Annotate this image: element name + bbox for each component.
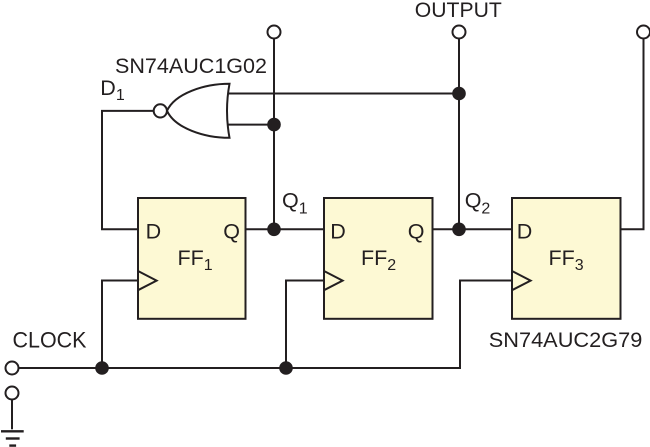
flip-flop FF1 box (138, 198, 246, 319)
svg-text:SN74AUC1G02: SN74AUC1G02 (115, 54, 267, 78)
junction dot (NOR top input on OUTPUT vertical) (452, 87, 466, 101)
terminal circle (clock source return, to ground) (6, 387, 19, 400)
flip-flop FF2 clock triangle (324, 271, 343, 290)
svg-text:Q: Q (408, 219, 425, 243)
svg-text:Q1: Q1 (282, 189, 308, 218)
flip-flop FF1 clock triangle (138, 271, 157, 290)
wire: source return down to ground (11, 399, 13, 429)
junction dot (FF2 clock tap on clock bus) (279, 361, 293, 375)
svg-text:D: D (146, 219, 162, 243)
junction dot (net Q1 on FF1 output) (267, 223, 281, 237)
svg-text:SN74AUC2G79: SN74AUC2G79 (489, 328, 643, 352)
wire: clock bus from source to FF3 clock input (18, 281, 512, 369)
NOR gate output inversion bubble (154, 104, 167, 117)
svg-text:Q2: Q2 (465, 189, 491, 218)
svg-text:D: D (330, 219, 346, 243)
junction dot (NOR bottom input on Q1 vertical) (267, 118, 281, 132)
NOR gate U1 SN74AUC1G02 body (mirrored, pointing left) (167, 84, 230, 138)
wire: FF3 output to top-right terminal (621, 38, 644, 229)
terminal circle (Q1 output pin, top left) (268, 26, 281, 39)
wire: clock tap up to FF2 clock input (286, 281, 324, 369)
wire: FF1 Q to FF2 D (net Q1) (246, 228, 325, 230)
wire: NOR gate output (D1) down to FF1 D input (102, 111, 154, 229)
wire: Q1 vertical from top-left terminal down to Q1 node (273, 38, 275, 229)
flip-flop FF3 clock triangle (512, 271, 531, 290)
svg-text:OUTPUT: OUTPUT (415, 0, 502, 22)
wire: OUTPUT vertical from terminal down to Q2 node (458, 38, 460, 229)
junction dot (FF1 clock tap on clock bus) (95, 361, 109, 375)
terminal circle (OUTPUT pin, top middle) (453, 26, 466, 39)
wire: NOR gate top input to OUTPUT net (226, 93, 460, 95)
ground symbol (1, 431, 24, 445)
terminal circle (CLOCK source) (6, 362, 19, 375)
svg-text:CLOCK: CLOCK (13, 328, 87, 353)
svg-text:D1: D1 (100, 76, 125, 104)
flip-flop FF2 box (324, 198, 433, 319)
wire: NOR gate bottom input to Q1 net (226, 124, 275, 126)
wire: FF2 Q to FF3 D (net Q2) (433, 228, 513, 230)
junction dot (net Q2 on FF2 output) (452, 223, 466, 237)
wire: clock tap up to FF1 clock input (102, 281, 138, 369)
svg-text:Q: Q (223, 219, 240, 243)
flip-flop FF3 box (512, 198, 621, 319)
terminal circle (top right pin) (637, 26, 650, 39)
svg-text:D: D (517, 219, 533, 243)
